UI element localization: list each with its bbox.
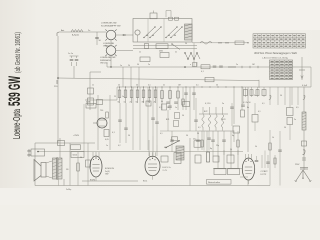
svg-text:1n 1n: 1n 1n [68, 53, 73, 55]
svg-text:0,1 50: 0,1 50 [205, 103, 210, 105]
svg-text:5k: 5k [255, 146, 257, 148]
svg-text:Netzschalter: Netzschalter [208, 181, 220, 184]
svg-text:1n: 1n [139, 51, 141, 53]
svg-text:0,1: 0,1 [159, 107, 162, 109]
svg-text:50: 50 [186, 135, 188, 137]
svg-text:1n: 1n [92, 85, 94, 87]
svg-text:0,1: 0,1 [198, 127, 201, 129]
svg-text:25: 25 [114, 96, 116, 98]
svg-text:BV3: BV3 [222, 119, 225, 121]
svg-text:2n: 2n [88, 30, 90, 32]
svg-text:4k: 4k [161, 101, 163, 103]
svg-text:+250V: +250V [73, 135, 80, 137]
svg-text:8n: 8n [247, 107, 249, 109]
svg-text:1n: 1n [175, 107, 177, 109]
svg-text:L-Bereich Wellensch.-Stellg.: L-Bereich Wellensch.-Stellg. [262, 57, 288, 60]
svg-text:2k: 2k [154, 102, 156, 104]
svg-text:EL11: EL11 [143, 181, 147, 183]
svg-text:KULENKAMPFF GW: KULENKAMPFF GW [101, 24, 121, 27]
svg-text:50: 50 [185, 43, 187, 45]
svg-text:2n: 2n [294, 119, 296, 121]
svg-text:0,1: 0,1 [148, 85, 151, 87]
svg-text:50: 50 [230, 149, 232, 151]
svg-text:LOEWE-BE 2M2: LOEWE-BE 2M2 [100, 57, 116, 59]
svg-text:220V: 220V [295, 164, 300, 166]
svg-text:50: 50 [197, 133, 199, 135]
svg-text:LOEWE-BE: LOEWE-BE [103, 43, 115, 45]
svg-text:2n: 2n [163, 85, 165, 87]
svg-text:50: 50 [280, 95, 282, 97]
svg-text:50: 50 [182, 115, 184, 117]
svg-text:0,1: 0,1 [258, 111, 261, 113]
svg-text:2n: 2n [175, 51, 177, 53]
svg-text:0,1: 0,1 [201, 71, 204, 73]
svg-text:25µ: 25µ [216, 145, 219, 147]
svg-text:50: 50 [136, 102, 138, 104]
svg-text:ECH4: ECH4 [90, 180, 95, 182]
svg-text:UKW bzw. Phono-Tastenaggregat: UKW bzw. Phono-Tastenaggregat n. Wahl [254, 52, 297, 55]
svg-text:0,1: 0,1 [112, 132, 115, 134]
svg-text:50: 50 [128, 135, 130, 137]
svg-text:5k: 5k [118, 102, 120, 104]
svg-text:0,1: 0,1 [160, 133, 163, 135]
svg-text:a: a [190, 64, 191, 66]
svg-text:2k: 2k [128, 65, 130, 67]
svg-text:CY/BZ2: CY/BZ2 [261, 171, 269, 173]
svg-text:EL/CL 2x: EL/CL 2x [163, 167, 171, 169]
svg-text:2x50µ: 2x50µ [66, 189, 72, 191]
svg-text:2n: 2n [148, 64, 150, 66]
svg-text:1n: 1n [120, 65, 122, 67]
svg-text:50: 50 [216, 85, 218, 87]
svg-text:50: 50 [136, 85, 138, 87]
svg-text:2n: 2n [222, 103, 224, 105]
svg-text:0,1: 0,1 [196, 85, 199, 87]
svg-text:DY/TZ: DY/TZ [261, 174, 268, 176]
svg-text:0,1: 0,1 [262, 103, 265, 105]
svg-text:BV1: BV1 [166, 119, 169, 121]
svg-text:1n: 1n [124, 102, 126, 104]
svg-text:2k: 2k [118, 85, 120, 87]
svg-text:0,1 2n 50: 0,1 2n 50 [243, 102, 251, 104]
svg-text:2x(4): 2x(4) [105, 171, 110, 173]
svg-text:0,1µF: 0,1µF [302, 85, 308, 87]
svg-text:Ant: Ant [61, 29, 65, 32]
svg-text:GW200: GW200 [103, 46, 111, 48]
svg-text:GW: GW [105, 174, 109, 176]
svg-text:1k: 1k [272, 137, 274, 139]
svg-text:0,5M: 0,5M [86, 102, 91, 104]
svg-text:750: 750 [100, 110, 103, 112]
svg-text:ZWEIFACH: ZWEIFACH [100, 59, 111, 62]
svg-text:LOEWE-BE 2M2: LOEWE-BE 2M2 [101, 23, 117, 25]
svg-text:A-Spule: A-Spule [72, 34, 80, 37]
svg-text:BV2: BV2 [204, 111, 207, 113]
svg-text:0,05: 0,05 [105, 139, 109, 141]
svg-text:4µ: 4µ [232, 135, 234, 137]
svg-text:0,5: 0,5 [296, 107, 299, 109]
svg-text:50: 50 [80, 157, 82, 159]
svg-text:8µ: 8µ [210, 148, 212, 150]
svg-text:2n: 2n [236, 64, 238, 66]
svg-text:ECH/UCH: ECH/UCH [105, 168, 115, 170]
svg-text:2n: 2n [254, 95, 256, 97]
svg-text:0,2: 0,2 [118, 145, 121, 147]
svg-text:1n: 1n [122, 96, 124, 98]
svg-text:50: 50 [137, 64, 139, 66]
svg-text:2n: 2n [130, 102, 132, 104]
svg-text:1n: 1n [106, 145, 108, 147]
svg-text:0,5: 0,5 [164, 147, 167, 149]
svg-text:50: 50 [284, 127, 286, 129]
